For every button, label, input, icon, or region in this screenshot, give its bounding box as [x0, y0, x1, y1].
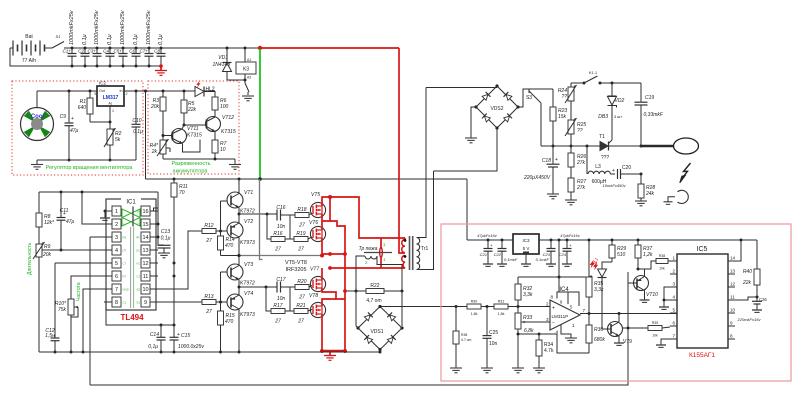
svg-text:VT3: VT3: [244, 262, 253, 268]
IC5 pin 10: [728, 308, 736, 314]
svg-text:C10: C10: [132, 118, 141, 124]
wire VDS2 bottom AC staircase: [434, 128, 498, 171]
wire IC1 pin8 to C14/C15: [104, 302, 176, 327]
svg-text:27: 27: [205, 238, 212, 244]
inductor L3 600uH: [586, 145, 616, 186]
IC chip IC5 K155AG1: [677, 246, 728, 348]
resistor R20 27: [295, 279, 312, 301]
transistor VT4 KT973: [227, 287, 255, 354]
IC5 pin 9: [728, 321, 735, 327]
svg-text:C2: C2: [78, 49, 84, 54]
svg-text:C14: C14: [150, 332, 159, 338]
wire R14 bottom row: [221, 255, 241, 257]
svg-text:+: +: [552, 306, 555, 312]
red wire top node to transformer riser: [330, 197, 405, 238]
svg-text:V79: V79: [623, 339, 632, 345]
capacitor C8: [154, 34, 165, 67]
svg-text:R20: R20: [297, 279, 306, 285]
svg-text:4.7 om: 4.7 om: [461, 338, 472, 342]
bridge rectifier VDS1: [356, 305, 403, 351]
svg-text:К155АГ1: К155АГ1: [689, 352, 715, 359]
svg-text:0,1μ: 0,1μ: [148, 344, 158, 350]
resistor R36 680k: [586, 314, 605, 354]
svg-text:Тр пежа: Тр пежа: [359, 246, 378, 252]
svg-text:−: −: [552, 320, 555, 326]
resistor R34 4,7k: [517, 333, 554, 373]
red wire source rail y254: [322, 252, 347, 256]
svg-text:10: 10: [220, 147, 226, 153]
wire S3 y89 to R23: [529, 88, 553, 90]
svg-text:1000mkFx25v: 1000mkFx25v: [94, 9, 100, 45]
potentiometer R24 ??: [558, 83, 577, 120]
transformer Tr1 core: [410, 236, 413, 270]
resistor R31 1,8k: [486, 300, 551, 317]
svg-text:+: +: [555, 157, 558, 163]
svg-text:27k: 27k: [576, 160, 586, 166]
svg-text:C3+: C3+: [87, 49, 96, 54]
MOSFET VT5 IRF3205: [310, 192, 325, 218]
red wire VT7 drain row y268: [322, 266, 405, 280]
IC5 pin 11: [728, 295, 735, 301]
svg-text:27: 27: [274, 319, 281, 325]
IC1 pin 6: [104, 271, 126, 281]
svg-text:1: 1: [572, 323, 575, 328]
wire pin10 to R12: [158, 231, 202, 289]
svg-text:1: 1: [672, 256, 675, 261]
svg-text:R12: R12: [204, 223, 213, 229]
svg-text:??: ??: [561, 94, 567, 100]
battery Bat 77A/h: [10, 34, 45, 64]
capacitor C24: [559, 239, 572, 267]
socket symbol: [664, 190, 689, 204]
svg-text:0,1μ: 0,1μ: [82, 34, 88, 45]
svg-text:C15: C15: [181, 333, 190, 339]
wire VT11 emitter loop: [183, 140, 201, 153]
wire VDS1 right corner riser: [401, 291, 403, 326]
switch S3: [526, 89, 541, 146]
svg-text:Длительность: Длительность: [27, 242, 33, 275]
svg-text:8: 8: [730, 334, 733, 339]
svg-text:C19: C19: [645, 95, 654, 101]
svg-text:R22: R22: [370, 283, 379, 289]
svg-text:15k: 15k: [558, 114, 567, 120]
wire feedback bottom loop: [90, 272, 628, 385]
svg-text:TL494: TL494: [120, 313, 144, 322]
resistor R11 70: [171, 179, 188, 197]
capacitor C15 1000x25v: [170, 325, 205, 354]
IC5 pin 14: [728, 256, 736, 262]
svg-text:20k: 20k: [150, 104, 160, 110]
transformer Tr1 secondary: [417, 88, 434, 270]
svg-text:24k: 24k: [645, 191, 655, 197]
svg-text:47μ: 47μ: [66, 219, 75, 225]
svg-text:7: 7: [583, 308, 586, 313]
svg-text:R40: R40: [743, 269, 752, 275]
wire VDS2 top AC input: [426, 87, 497, 89]
capacitor C26 220mkFx16v: [737, 297, 768, 322]
svg-text:S3: S3: [526, 95, 532, 101]
wire IC5 pins 3-4 to ground: [659, 287, 670, 309]
wire R20 R21 junction riser: [289, 287, 291, 311]
capacitor C17 10n: [276, 277, 295, 302]
svg-text:6,8k: 6,8k: [524, 328, 534, 334]
IC chip IC1 TL494 body: [106, 196, 156, 310]
svg-text:3 шт: 3 шт: [614, 115, 622, 119]
svg-text:5: 5: [672, 308, 675, 313]
svg-text:IC2: IC2: [99, 81, 107, 86]
current transformer sense primary neck: [380, 238, 383, 268]
svg-text:20k: 20k: [42, 252, 52, 258]
resistor R5 22k: [181, 90, 197, 127]
transistor VT3 KT972: [227, 256, 255, 288]
svg-text:VT8: VT8: [309, 293, 318, 299]
svg-text:C5+: C5+: [113, 49, 122, 54]
resistor R13 27: [202, 294, 227, 315]
ground discharge box: [229, 159, 241, 169]
svg-text:10mkFx450v: 10mkFx450v: [603, 183, 627, 188]
svg-text:IC3: IC3: [522, 238, 530, 243]
resistor R22 4,7om: [343, 283, 403, 304]
svg-text:C4: C4: [103, 49, 109, 54]
svg-text:C13: C13: [161, 229, 170, 235]
svg-text:Частота: Частота: [76, 282, 82, 301]
svg-text:5: 5: [115, 261, 118, 267]
svg-text:3,3k: 3,3k: [523, 292, 533, 298]
wire output main row y146: [541, 145, 641, 147]
resistor R29 510: [609, 239, 626, 263]
svg-text:27: 27: [205, 309, 212, 315]
bridge rectifier VDS2: [474, 84, 519, 129]
svg-text:E1: E1: [137, 301, 141, 305]
svg-text:8: 8: [115, 300, 118, 306]
LED HL1: [590, 256, 612, 329]
resistor R40 22k: [742, 240, 760, 299]
red dot battery rail junction: [258, 46, 262, 50]
wire VT3 VT4 base riser: [220, 272, 222, 302]
svg-text:C6: C6: [129, 49, 135, 54]
svg-text:IRF3205: IRF3205: [285, 267, 306, 273]
svg-text:KT973: KT973: [240, 312, 255, 318]
svg-text:4.7k: 4.7k: [544, 348, 554, 354]
svg-text:6: 6: [115, 274, 118, 280]
IC5 pin 6: [670, 321, 677, 327]
transistor VT11 KT315: [172, 125, 202, 144]
capacitor C22: [494, 239, 518, 267]
LED HL2: [195, 80, 215, 96]
potentiometer R2 5k: [104, 128, 122, 162]
resistor R7 10: [212, 132, 227, 160]
resistor R1 640: [78, 90, 93, 123]
svg-text:510: 510: [617, 252, 626, 258]
svg-text:R38: R38: [461, 333, 467, 337]
ground fan box: [31, 160, 43, 169]
capacitor C11 47u: [57, 192, 75, 252]
red ground bar MOSFET: [320, 349, 347, 360]
svg-text:100: 100: [220, 104, 229, 110]
svg-text:R39: R39: [652, 321, 658, 325]
svg-text:2: 2: [126, 92, 128, 96]
wire top rail battery: [64, 47, 260, 49]
svg-text:GND: GND: [123, 288, 129, 292]
svg-text:0,1μ: 0,1μ: [133, 129, 143, 135]
resistor R17 27: [271, 303, 294, 325]
wire VDS1 bottom to ground rail: [379, 350, 381, 353]
svg-text:1000mkFx25v: 1000mkFx25v: [120, 9, 126, 45]
wire IC5 pin7 ground: [656, 339, 670, 347]
resistor R32 3,3k: [515, 277, 533, 308]
capacitor C2: [78, 34, 89, 67]
resistor R30 1,8k: [455, 300, 482, 317]
svg-text:1000.0x25v: 1000.0x25v: [178, 344, 204, 350]
IC5 pin 2: [670, 269, 677, 275]
svg-text:15: 15: [142, 222, 148, 228]
svg-text:27: 27: [297, 247, 304, 253]
svg-text:Aj: Aj: [108, 102, 111, 106]
svg-text:47μkFx16v: 47μkFx16v: [560, 233, 581, 238]
svg-text:C1+: C1+: [62, 49, 71, 54]
wire R18 R19 junction riser: [289, 215, 291, 239]
svg-text:аккумулятора: аккумулятора: [173, 169, 209, 175]
IC5 pin 8: [728, 334, 735, 340]
regulator IC2 LM317: [94, 81, 128, 114]
svg-text:R31: R31: [498, 300, 505, 304]
svg-text:??: ??: [577, 128, 583, 134]
svg-text:T1: T1: [599, 134, 605, 140]
wire driver2 output row: [238, 286, 277, 289]
relay coil K3: [236, 47, 256, 81]
svg-text:10n: 10n: [277, 296, 286, 302]
diode VD1 1N4148: [212, 47, 231, 81]
svg-text:4,7 om: 4,7 om: [366, 298, 381, 304]
svg-text:3: 3: [672, 282, 675, 287]
svg-text:C20: C20: [622, 165, 631, 171]
wire fan to regulator: [36, 91, 38, 108]
pink control box border: [441, 224, 791, 381]
svg-text:0,33mkF: 0,33mkF: [644, 112, 664, 118]
resistor R38 4,7om: [450, 307, 472, 373]
capacitor C23: [536, 239, 556, 267]
red node dot VT5: [328, 195, 332, 199]
resistor R21 27: [294, 303, 312, 325]
wire pin7 to ground rail: [82, 289, 105, 354]
svg-text:R19: R19: [296, 231, 305, 237]
svg-text:E2: E2: [137, 288, 141, 292]
red wire VT5 drain to top node: [322, 197, 330, 206]
IC5 pin 5: [670, 308, 677, 314]
wire pin3 feedback loop down: [90, 236, 104, 238]
svg-text:5 V: 5 V: [523, 246, 530, 251]
svg-text:VD2: VD2: [615, 98, 625, 104]
svg-text:VT12: VT12: [222, 115, 234, 121]
red wire VT6 drain/source: [321, 221, 323, 230]
wire pin6 row: [71, 276, 104, 299]
wire VT1 VT2 base riser: [220, 201, 222, 231]
capacitor C13 0,1u: [158, 229, 171, 258]
capacitor C4: [103, 34, 114, 67]
ground IC1 pin1: [100, 210, 110, 221]
svg-text:47μkFx16v: 47μkFx16v: [477, 233, 498, 238]
wire common ground rail: [39, 351, 382, 354]
svg-text:C1: C1: [123, 301, 127, 305]
IC1 pin 9: [137, 297, 158, 307]
svg-text:7: 7: [115, 287, 118, 293]
svg-text:E2: E2: [137, 223, 141, 227]
IC1 pin 3: [104, 232, 126, 242]
resistor R15 470: [218, 302, 235, 354]
svg-text:9: 9: [730, 321, 733, 326]
wire pin2 feedback: [82, 192, 104, 224]
svg-text:VT2: VT2: [244, 219, 253, 225]
svg-text:10: 10: [730, 308, 736, 313]
svg-text:KT972: KT972: [240, 281, 255, 287]
current transformer Tr sense core and secondary: [356, 242, 402, 291]
svg-text:27: 27: [298, 223, 305, 229]
wire IC5 pin11 jog: [735, 297, 757, 300]
svg-text:470: 470: [225, 319, 234, 325]
svg-text:+: +: [612, 168, 615, 174]
capacitor C25 10n: [481, 307, 498, 373]
svg-text:12: 12: [142, 261, 148, 267]
svg-text:27: 27: [297, 319, 304, 325]
IC1 pin 11: [136, 271, 158, 281]
svg-text:0,1μ: 0,1μ: [158, 34, 164, 45]
diac VD2 DB3: [598, 82, 624, 141]
svg-text:+: +: [490, 243, 493, 248]
svg-text:27k: 27k: [576, 185, 586, 191]
MOSFET VT8 IRF3205: [309, 293, 326, 318]
svg-text:4: 4: [115, 248, 118, 254]
transistor V79: [602, 314, 632, 346]
svg-text:3: 3: [546, 317, 549, 322]
wire C17 R17 junction riser: [266, 287, 271, 311]
capacitor C16 10n: [276, 205, 295, 230]
regulator IC3 5V: [513, 234, 539, 266]
svg-text:VD1: VD1: [218, 55, 228, 61]
svg-text:640: 640: [78, 105, 87, 111]
wire fan regulator bottom rail: [37, 159, 136, 161]
wire VT11 base: [163, 135, 173, 137]
svg-text:1000mkFx25v: 1000mkFx25v: [69, 9, 75, 45]
IC5 pin 4: [670, 295, 677, 301]
svg-text:14: 14: [142, 235, 148, 241]
svg-text:KT315: KT315: [187, 133, 202, 139]
resistor R37 1,2k: [635, 239, 653, 271]
svg-text:22k: 22k: [187, 107, 197, 113]
relay contact K1.1: [571, 70, 641, 85]
svg-text:IC5: IC5: [697, 246, 708, 253]
wire green +12V drop: [259, 49, 261, 179]
wire red +12V top rail: [260, 47, 399, 49]
svg-text:27: 27: [274, 247, 281, 253]
capacitor C3: [87, 9, 101, 67]
lightning symbol: [682, 163, 691, 179]
svg-text:220μX450V: 220μX450V: [523, 175, 551, 181]
IC1 pin 4: [104, 245, 127, 255]
wire VDS1 output to comparator: [380, 306, 467, 308]
resistor R35 3,3k: [586, 239, 604, 314]
resistor R26 27k: [568, 146, 586, 167]
IC1 pin 2: [104, 219, 126, 229]
svg-text:DT: DT: [123, 249, 127, 253]
svg-text:RF: RF: [136, 236, 140, 240]
svg-text:22k: 22k: [742, 280, 752, 286]
transistor VT1 KT972: [227, 179, 255, 215]
svg-text:0,1μ: 0,1μ: [161, 236, 171, 242]
svg-text:LM317: LM317: [103, 95, 119, 101]
wire IC2 adj pin to R2: [90, 106, 112, 129]
svg-text:R18: R18: [297, 207, 306, 213]
svg-text:R9: R9: [44, 244, 51, 250]
dotted box fan regulator: [12, 81, 143, 175]
potentiometer R4* 2k: [150, 136, 170, 160]
red wire bus VT5 source chain: [322, 197, 330, 221]
resistor R12 27: [202, 223, 227, 244]
svg-text:10n: 10n: [489, 341, 498, 347]
svg-text:C26: C26: [759, 297, 767, 302]
svg-text:C7+: C7+: [139, 49, 148, 54]
svg-text:K1.1: K1.1: [589, 70, 598, 75]
wire gray emitter bus to VT6 source: [239, 255, 322, 257]
svg-text:VDS1: VDS1: [370, 329, 383, 335]
svg-text:+: +: [569, 243, 572, 248]
svg-text:3: 3: [115, 235, 118, 241]
IC1 pin 5: [104, 258, 127, 268]
svg-text:VT10: VT10: [646, 292, 658, 298]
IC1 pin 1: [104, 206, 121, 216]
svg-text:A1: A1: [247, 58, 251, 62]
svg-text:1,2k: 1,2k: [643, 252, 653, 258]
transistor VT10: [634, 269, 659, 302]
svg-text:1: 1: [112, 109, 114, 113]
svg-text:IC1: IC1: [126, 200, 136, 206]
svg-text:470: 470: [225, 243, 234, 249]
wire feedback top y192: [39, 191, 158, 194]
svg-text:Регулятор вращения вентилятора: Регулятор вращения вентилятора: [46, 165, 134, 171]
dotted box battery discharge: [148, 81, 239, 174]
svg-text:Разряженность: Разряженность: [172, 161, 211, 167]
wire +12 rail y179: [146, 177, 468, 181]
wire R30 to R31: [481, 306, 494, 308]
svg-text:Out: Out: [99, 89, 105, 93]
svg-text:R38: R38: [659, 254, 665, 258]
wire VT11 collector to VT12 base: [184, 124, 207, 126]
svg-text:2: 2: [546, 302, 549, 307]
svg-text:680k: 680k: [594, 337, 605, 343]
red wire VT7 source VT8 drain chain: [322, 288, 345, 299]
svg-text:A2: A2: [247, 76, 251, 80]
IC1 pin 15: [137, 219, 158, 229]
svg-text:???: ???: [601, 155, 610, 161]
svg-text:10: 10: [142, 287, 148, 293]
wire discharge box bottom: [163, 158, 235, 161]
svg-text:1: 1: [115, 209, 118, 215]
svg-text:S1: S1: [56, 34, 61, 39]
svg-text:5k: 5k: [115, 137, 121, 143]
resistor R27 27k: [565, 167, 586, 205]
relay contact K3 to ground: [242, 80, 254, 101]
resistor R6 100: [212, 91, 229, 117]
svg-text:VT1: VT1: [244, 190, 253, 196]
svg-text:R30: R30: [471, 300, 478, 304]
svg-text:C8: C8: [154, 49, 160, 54]
svg-text:KT315: KT315: [221, 129, 236, 135]
svg-text:1000mkFx25v: 1000mkFx25v: [146, 9, 152, 45]
svg-text:13: 13: [730, 269, 736, 274]
capacitor C20 10mkFx450v: [603, 165, 643, 188]
wire IC2 In to discharge box rail: [124, 90, 215, 92]
wire pin9 to R13: [158, 301, 202, 303]
svg-text:C18: C18: [542, 158, 551, 164]
